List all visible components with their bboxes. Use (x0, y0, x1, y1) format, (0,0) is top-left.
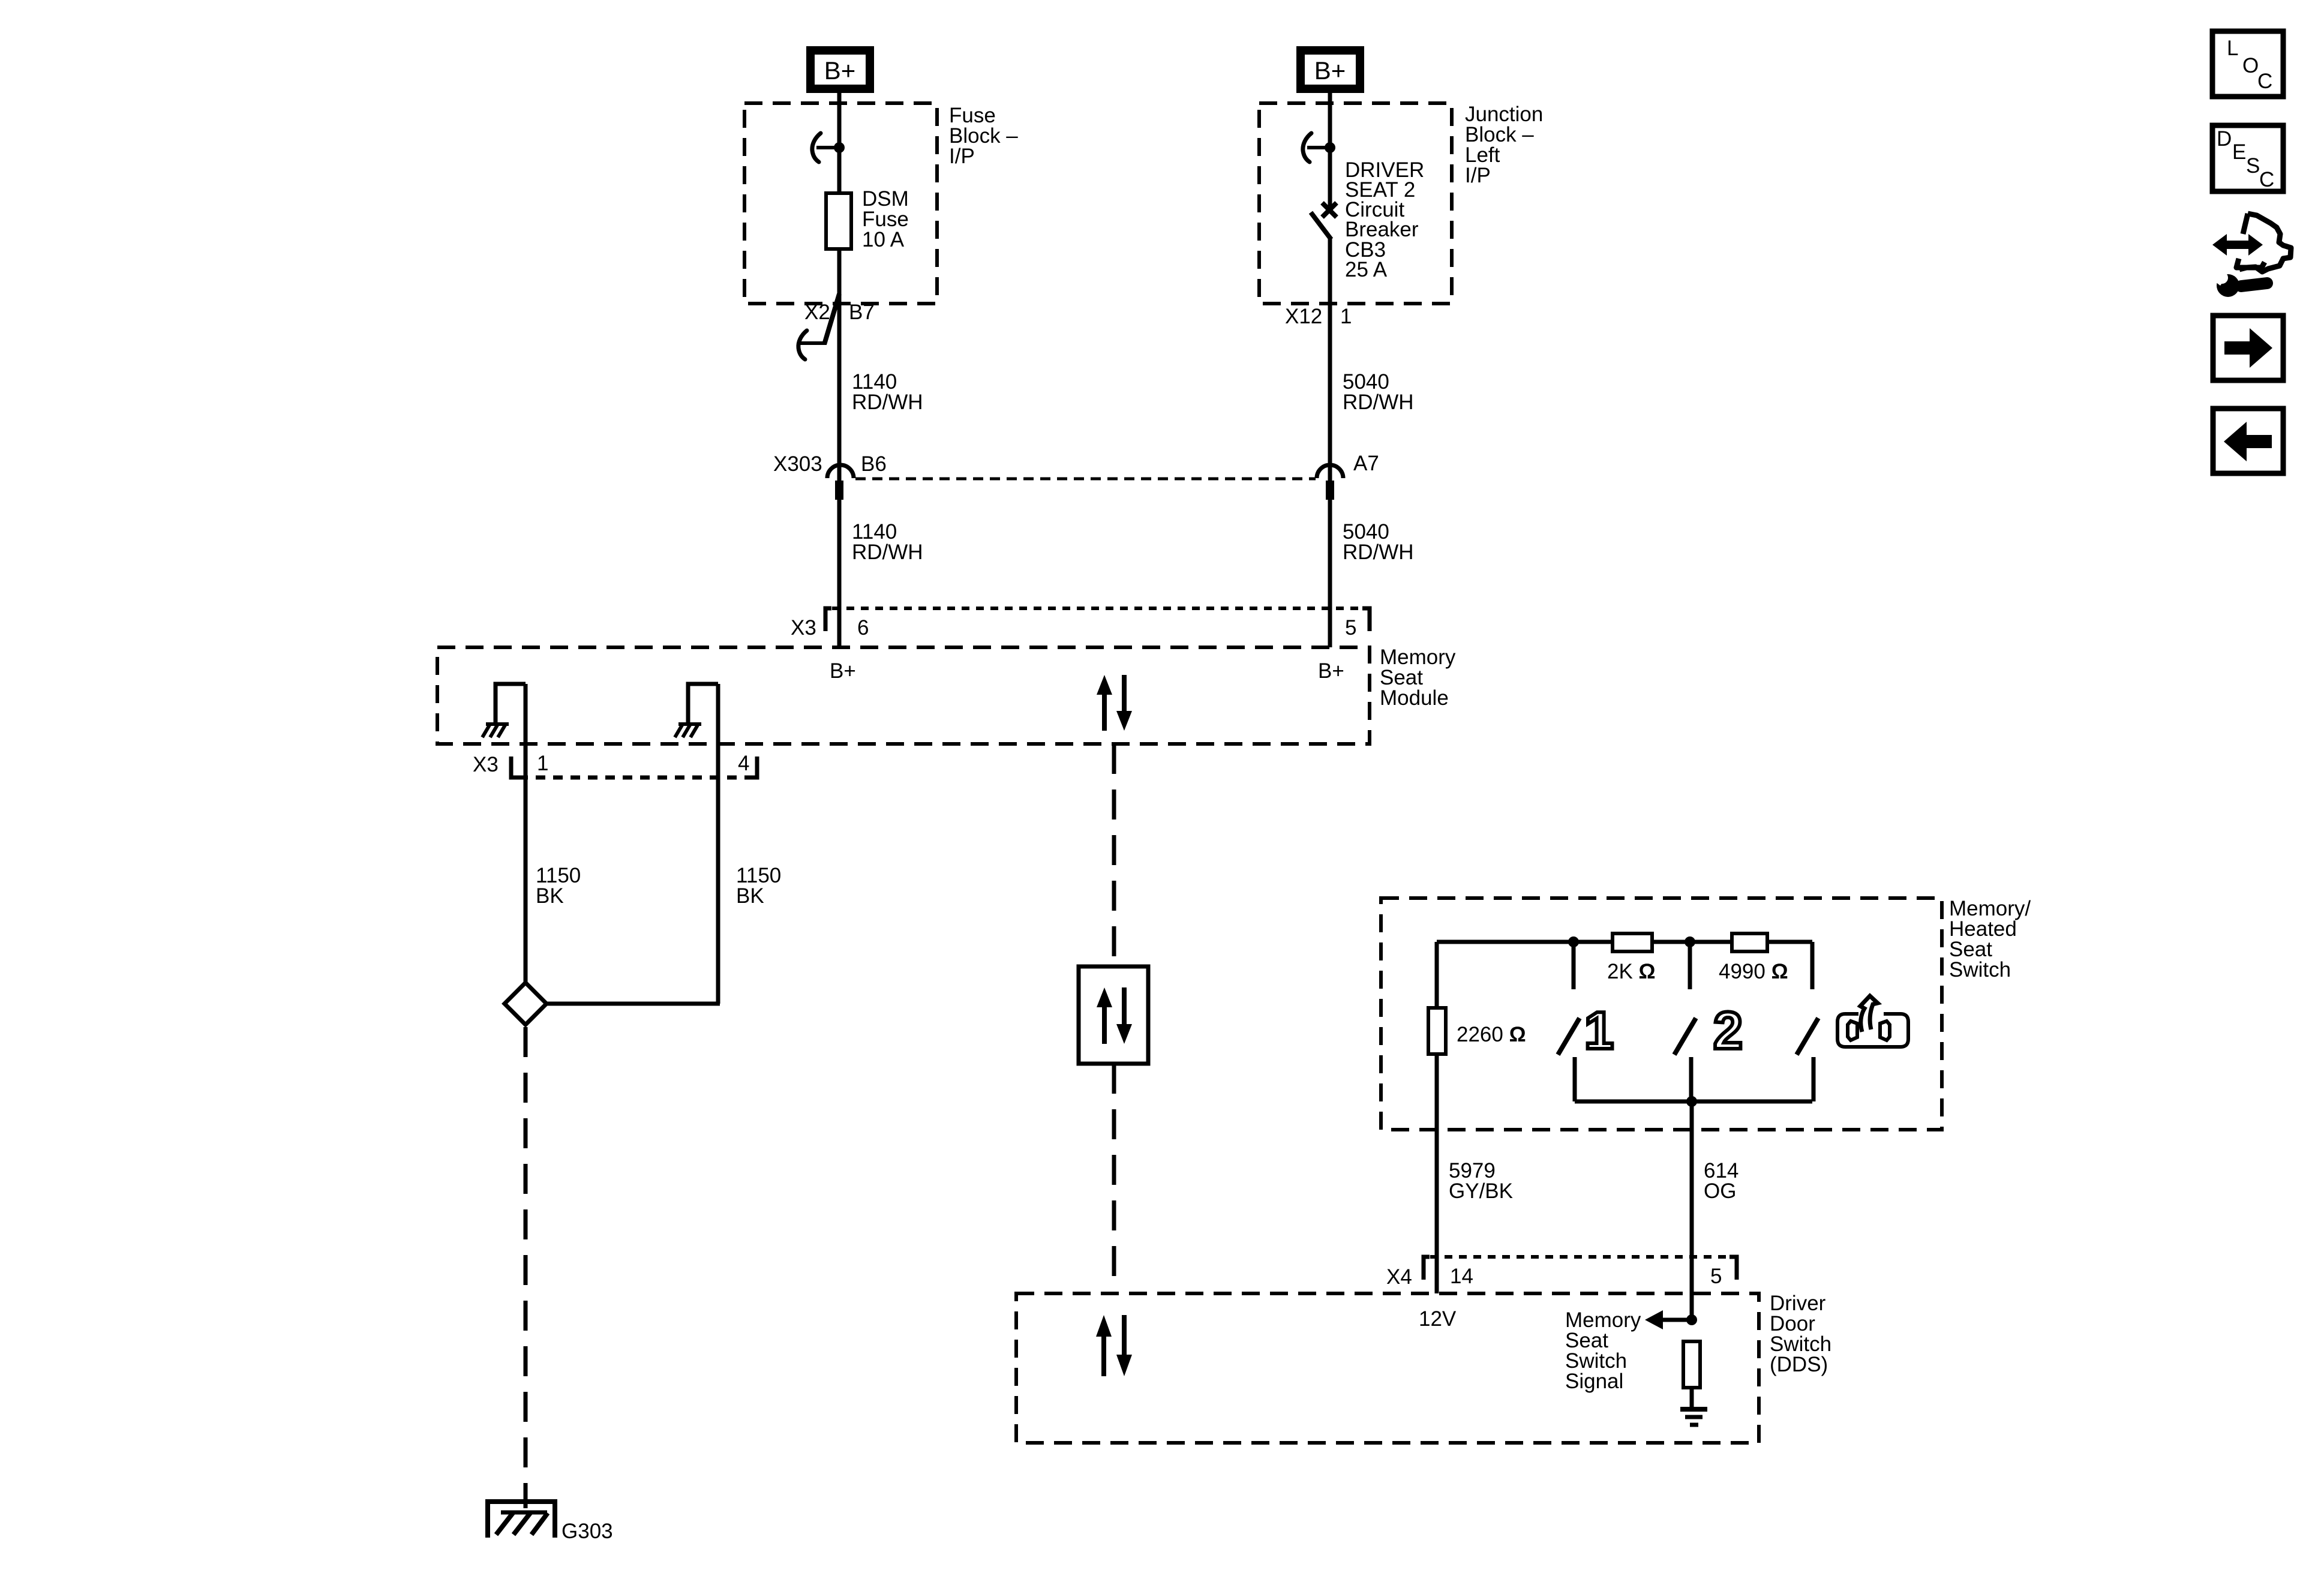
wire from switch 2 down to driver door switch (1690, 1101, 1694, 1320)
diagnostic wrench icon double arrow (2212, 234, 2263, 256)
svg-text:B6: B6 (861, 452, 887, 476)
junction dot switch 1 (1568, 936, 1579, 947)
fuse DSM 10A symbol (826, 193, 851, 249)
ground G303 symbol (488, 1502, 555, 1538)
svg-text:2: 2 (1713, 1001, 1743, 1060)
module up/down arrows (1097, 675, 1112, 731)
svg-text:6: 6 (857, 616, 869, 640)
svg-text:1: 1 (537, 752, 548, 775)
Memory/Heated Seat Switch dashed box (1381, 898, 1942, 1130)
ground wire right from module pin 4 (716, 684, 720, 1004)
signal ground symbol (1680, 1407, 1707, 1412)
switch bottom bus wire (1575, 1100, 1812, 1104)
chassis ground hatch left (486, 722, 509, 726)
X4 right pin bracket (1730, 1257, 1737, 1280)
diagnostic icon vehicle outline (2236, 214, 2291, 272)
pull-down resistor in DDS (1683, 1341, 1700, 1388)
svg-text:B+: B+ (824, 56, 856, 85)
svg-text:D: D (2217, 127, 2232, 151)
dashed ground wire down to G303 (524, 1027, 528, 1494)
Driver Door Switch dashed box (1016, 1293, 1759, 1443)
svg-text:B7: B7 (849, 301, 875, 324)
svg-text:1: 1 (1340, 305, 1352, 328)
svg-text:RD/WH: RD/WH (1343, 391, 1414, 414)
svg-text:Switch: Switch (1949, 958, 2011, 981)
svg-text:E: E (2232, 140, 2246, 164)
svg-text:4: 4 (738, 752, 749, 775)
LOC navigation box (2212, 31, 2283, 97)
connector X3 dotted line pins 6 and 5 (832, 607, 1363, 610)
circuit breaker CB3 contact cross (1322, 203, 1337, 217)
svg-text:X2: X2 (804, 301, 830, 324)
svg-text:BK: BK (736, 884, 764, 908)
X4 left pin bracket (1424, 1257, 1430, 1280)
X3 left pin bracket (825, 608, 831, 631)
connector X4 dotted line pins 14 and 5 (1430, 1255, 1730, 1259)
svg-text:1: 1 (1584, 1001, 1614, 1060)
switch 2 contacts and blade (1688, 942, 1692, 989)
chassis ground hatch right (678, 722, 701, 726)
back arrow navigation box (2213, 409, 2283, 473)
svg-text:14: 14 (1450, 1265, 1473, 1288)
connector X3 dotted line pins 1 and 4 (518, 776, 751, 780)
dashed data wire lower (1112, 1064, 1116, 1293)
left branch wire to 2260 resistor (1435, 942, 1439, 1008)
in-line connector X303 B6 half-circle (827, 465, 854, 478)
dashed harness link between X303 connectors (855, 478, 1316, 481)
seat icon in switch (1837, 996, 1908, 1047)
svg-text:S: S (2246, 154, 2260, 178)
svg-text:B+: B+ (1318, 659, 1344, 683)
ground G303 stub (524, 1494, 528, 1508)
switch 1 contacts and blade (1572, 942, 1576, 989)
svg-text:B+: B+ (830, 659, 856, 683)
junction dot bottom bus (1686, 1096, 1697, 1107)
connector terminal bar below B6 arc (835, 481, 843, 500)
switch top bus wire (1437, 940, 1812, 944)
svg-text:O: O (2242, 54, 2259, 77)
junction dot on wire at fuse block connector (834, 142, 845, 153)
svg-text:12V: 12V (1419, 1307, 1457, 1331)
resistor 4990 ohm (1732, 933, 1767, 951)
forward arrow navigation box (2213, 316, 2283, 380)
boxed up/down arrows symbol on data line (1079, 966, 1148, 1064)
wire from B+ 1 into fuse block down to memory seat module (837, 89, 842, 647)
splice diamond S-point (505, 983, 547, 1025)
connector hook symbol inside fuse block (812, 133, 821, 162)
svg-text:I/P: I/P (949, 145, 975, 168)
ground wire left from module pin 1 (524, 684, 528, 984)
svg-text:25 A: 25 A (1345, 258, 1388, 281)
junction dot switch 2 (1685, 936, 1695, 947)
Memory Seat Module dashed box (437, 647, 1370, 744)
svg-text:(DDS): (DDS) (1770, 1353, 1828, 1376)
B+ power symbol box 1 (810, 50, 870, 89)
svg-text:4990 Ω: 4990 Ω (1719, 960, 1788, 983)
svg-text:Module: Module (1380, 686, 1449, 710)
svg-text:5: 5 (1710, 1265, 1722, 1288)
resistor 2260 ohm (1428, 1008, 1446, 1054)
dashed data wire from module to driver door switch upper (1112, 744, 1116, 966)
svg-text:C: C (2259, 168, 2274, 191)
connector hook symbol inside junction block (1303, 133, 1311, 162)
svg-text:X303: X303 (773, 452, 822, 476)
svg-text:G303: G303 (562, 1520, 613, 1543)
module internal ground stub left (496, 684, 526, 723)
svg-text:Signal: Signal (1565, 1370, 1623, 1393)
module internal ground stub right (688, 684, 718, 723)
svg-text:X12: X12 (1285, 305, 1322, 328)
junction dot on wire at junction block connector (1325, 142, 1335, 153)
wire from resistor to signal ground (1690, 1388, 1694, 1409)
svg-text:2K Ω: 2K Ω (1607, 960, 1656, 983)
DESC navigation box (2212, 125, 2283, 191)
svg-text:10 A: 10 A (862, 228, 905, 251)
wire from circuit breaker down to memory seat module (1328, 239, 1332, 647)
connector terminal bar below A7 arc (1326, 481, 1334, 500)
svg-text:RD/WH: RD/WH (852, 541, 923, 564)
svg-text:L: L (2227, 37, 2238, 60)
horizontal ground wire joining splice (545, 1002, 720, 1006)
X3 lower left pin bracket (511, 757, 519, 778)
switch 3 contacts and blade (1810, 942, 1815, 989)
X3 lower right pin bracket (749, 757, 757, 778)
svg-text:X3: X3 (473, 753, 499, 776)
resistor 2K ohm (1613, 933, 1652, 951)
diagnostic icon wrench (2241, 283, 2267, 286)
Junction Block - Left I/P dashed box (1259, 103, 1452, 304)
svg-text:X4: X4 (1386, 1265, 1412, 1289)
svg-text:RD/WH: RD/WH (852, 391, 923, 414)
in-line connector A7 half-circle (1317, 465, 1343, 478)
svg-text:A7: A7 (1353, 452, 1379, 475)
svg-text:I/P: I/P (1465, 164, 1491, 187)
svg-text:RD/WH: RD/WH (1343, 541, 1414, 564)
B+ power symbol box 2 (1301, 50, 1360, 89)
svg-text:C: C (2257, 70, 2272, 93)
svg-text:BK: BK (536, 884, 564, 908)
junction dot on signal wire (1686, 1314, 1697, 1325)
circuit breaker CB3 blade (1311, 212, 1331, 239)
svg-text:2260 Ω: 2260 Ω (1457, 1023, 1526, 1046)
svg-text:X3: X3 (791, 616, 816, 640)
wire from B+ 2 into junction block to circuit breaker (1328, 89, 1332, 206)
DDS up/down arrows (1096, 1315, 1112, 1376)
svg-text:GY/BK: GY/BK (1449, 1179, 1513, 1203)
memory seat switch signal arrow (1656, 1318, 1692, 1322)
connector X2 B7 diagonal symbol below fuse block (824, 294, 839, 344)
svg-text:5: 5 (1345, 616, 1356, 640)
Fuse Block - I/P dashed box (744, 103, 937, 304)
svg-text:OG: OG (1704, 1179, 1736, 1203)
X3 right pin bracket (1362, 608, 1370, 631)
svg-text:B+: B+ (1314, 56, 1346, 85)
wire below 2260 resistor leaving switch box (1435, 1054, 1439, 1293)
